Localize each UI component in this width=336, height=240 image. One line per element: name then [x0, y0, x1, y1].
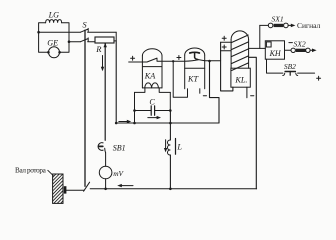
rotor shaft (hatched) [53, 174, 63, 203]
svg-text:R: R [95, 44, 102, 54]
wire brush to rail [66, 189, 84, 191]
pushbutton SB1 [98, 143, 126, 153]
svg-text:S: S [83, 21, 87, 30]
svg-text:GE: GE [47, 39, 58, 48]
svg-text:Сигнал: Сигнал [297, 21, 321, 30]
current arrow (down) near R [101, 56, 104, 72]
wire riser to SX1 [259, 25, 261, 48]
svg-text:KA: KA [144, 72, 156, 81]
test jack SX1 [260, 14, 296, 27]
current arrow on bottom wire (left) [117, 184, 133, 187]
wire rail to shaft brush [84, 30, 86, 186]
KT coil legs and minus [200, 89, 207, 96]
node right (wire B) [68, 40, 81, 43]
generator GE [47, 39, 61, 58]
rheostat R [95, 32, 116, 54]
current arrow on bus [119, 120, 131, 123]
relay KL winding [231, 31, 250, 87]
svg-text:L: L [176, 143, 182, 152]
plus mark at KA [131, 56, 135, 60]
switch S (double pole) [81, 21, 117, 42]
relay KA dome and contact [129, 49, 162, 88]
wire vertical to bus [115, 41, 117, 123]
svg-text:SB2: SB2 [284, 62, 296, 71]
plus mark at SB2 [317, 76, 321, 80]
capacitor C [133, 97, 171, 115]
wire loop of LG/GE [39, 23, 69, 53]
test jack SX2 [285, 39, 317, 52]
svg-text:KL.: KL. [234, 76, 247, 85]
KT contact output node [205, 60, 221, 123]
svg-text:Вал ротора: Вал ротора [15, 166, 47, 174]
svg-text:SX1: SX1 [272, 14, 284, 23]
current arrow at L [164, 140, 167, 153]
time relay KT [185, 48, 205, 89]
capacitor box outline [135, 88, 171, 123]
inductor LG [46, 10, 62, 23]
svg-text:KT: KT [187, 74, 199, 83]
current arrow under C [148, 116, 161, 119]
wire rail R wiper down [104, 44, 106, 141]
brush [64, 186, 67, 193]
brush contact blade [84, 182, 90, 191]
wire KL right down to bottom [249, 57, 257, 189]
millivoltmeter mV [99, 153, 124, 189]
svg-text:SX2: SX2 [294, 39, 306, 48]
signal relay KH [265, 41, 284, 59]
svg-text:KH: KH [269, 49, 282, 58]
svg-text:C: C [149, 97, 155, 106]
svg-text:LG: LG [48, 10, 60, 19]
svg-text:SB1: SB1 [113, 144, 126, 153]
node left (wire A) [37, 31, 80, 34]
KL legs and minus [247, 87, 254, 98]
wire KA contact to KT [162, 60, 188, 97]
wires and plus marks into KL [221, 36, 233, 91]
bus wire [115, 122, 219, 125]
svg-text:mV: mV [113, 169, 124, 178]
relay KA coil [142, 83, 162, 88]
bottom wire [90, 188, 256, 191]
plus mark at KT [177, 56, 181, 60]
wire KL to KH [249, 47, 266, 49]
inductor L branch [167, 111, 182, 189]
label Вал ротора [15, 166, 53, 175]
pushbutton SB2 [267, 59, 315, 75]
